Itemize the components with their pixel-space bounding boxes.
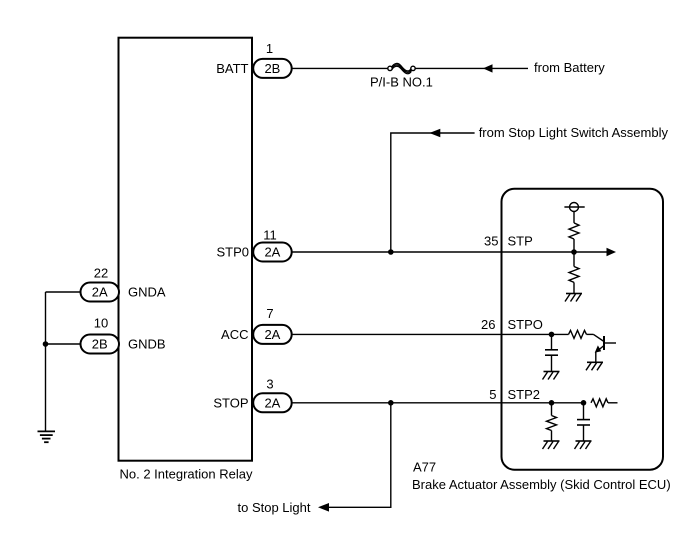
svg-text:STPO: STPO bbox=[508, 317, 543, 332]
junction dot STP2 first bbox=[549, 400, 555, 406]
wire GNDB bbox=[46, 343, 81, 345]
pin 11 STP0 connector 2A bbox=[216, 228, 291, 262]
svg-text:Brake Actuator Assembly (Skid: Brake Actuator Assembly (Skid Control EC… bbox=[412, 477, 671, 492]
svg-text:P/I-B NO.1: P/I-B NO.1 bbox=[370, 75, 433, 90]
junction dot STP divider bbox=[571, 249, 577, 255]
svg-text:STOP: STOP bbox=[213, 395, 248, 410]
ground STPO capacitor bbox=[543, 372, 560, 380]
svg-text:22: 22 bbox=[94, 266, 108, 281]
resistor base STPO bbox=[552, 330, 594, 338]
svg-text:2A: 2A bbox=[92, 285, 108, 300]
pin 1 BATT connector 2B bbox=[216, 41, 291, 78]
capacitor C STPO bbox=[545, 334, 558, 371]
capacitor C STP2 bbox=[577, 403, 590, 441]
wire GNDA bbox=[46, 291, 81, 293]
svg-text:STP: STP bbox=[508, 234, 533, 249]
fusible link P/I-B NO.1 bbox=[370, 63, 433, 89]
ground STP divider bbox=[565, 294, 582, 302]
junction dot STP2 second bbox=[581, 400, 587, 406]
svg-text:A77: A77 bbox=[413, 460, 436, 475]
svg-text:26: 26 bbox=[481, 317, 495, 332]
svg-text:1: 1 bbox=[266, 41, 273, 56]
junction dot STP0/switch bbox=[388, 249, 394, 255]
resistor lower STP bbox=[569, 252, 579, 294]
svg-text:3: 3 bbox=[266, 377, 273, 392]
svg-text:2A: 2A bbox=[264, 245, 280, 260]
wire from Stop Light Switch Assembly bbox=[391, 125, 669, 252]
wire STOP to STP2 bbox=[292, 402, 584, 404]
pin 5 STP2 label bbox=[489, 387, 540, 402]
ground earth symbol bbox=[38, 431, 56, 442]
ECU box A77 Brake Actuator Assembly bbox=[412, 189, 671, 492]
pin 35 STP label bbox=[484, 234, 533, 249]
junction dot STPO bbox=[549, 332, 555, 338]
ground transistor emitter bbox=[586, 362, 603, 370]
svg-text:2B: 2B bbox=[92, 337, 108, 352]
pin 26 STPO label bbox=[481, 317, 543, 332]
relay box No.2 Integration Relay bbox=[119, 38, 253, 482]
junction dot GND bbox=[43, 341, 49, 347]
svg-text:STP0: STP0 bbox=[216, 245, 249, 260]
wire ground drop bbox=[45, 292, 47, 431]
pin 10 GNDB connector 2B bbox=[81, 316, 166, 354]
wire ACC to STPO bbox=[292, 333, 552, 335]
svg-text:GNDA: GNDA bbox=[128, 285, 166, 300]
transistor Q STPO bbox=[594, 334, 617, 362]
svg-text:BATT: BATT bbox=[216, 61, 248, 76]
resistor STP2 series bbox=[591, 399, 618, 407]
svg-text:10: 10 bbox=[94, 316, 108, 331]
resistor upper STP bbox=[569, 223, 579, 252]
pin 7 ACC connector 2A bbox=[221, 306, 292, 344]
wire STP0 to STP bbox=[292, 248, 616, 256]
pin 22 GNDA connector 2A bbox=[81, 266, 166, 302]
svg-text:5: 5 bbox=[489, 387, 496, 402]
pin 3 STOP connector 2A bbox=[213, 377, 291, 413]
svg-text:ACC: ACC bbox=[221, 327, 248, 342]
svg-text:STP2: STP2 bbox=[508, 387, 541, 402]
svg-text:to Stop Light: to Stop Light bbox=[238, 500, 311, 515]
ground STP2 resistor bbox=[543, 441, 560, 449]
svg-text:No. 2 Integration Relay: No. 2 Integration Relay bbox=[120, 467, 253, 482]
svg-text:7: 7 bbox=[266, 306, 273, 321]
svg-text:from Stop Light Switch Assembl: from Stop Light Switch Assembly bbox=[479, 125, 669, 140]
resistor R STP2 left bbox=[547, 403, 557, 441]
svg-text:2B: 2B bbox=[264, 61, 280, 76]
svg-text:from Battery: from Battery bbox=[534, 60, 605, 75]
svg-text:35: 35 bbox=[484, 234, 498, 249]
svg-text:GNDB: GNDB bbox=[128, 337, 166, 352]
wire to Stop Light bbox=[238, 403, 391, 515]
wire BATT to battery bbox=[292, 60, 606, 75]
svg-text:2A: 2A bbox=[264, 395, 280, 410]
junction dot stop light drop bbox=[388, 400, 394, 406]
power source symbol bbox=[564, 203, 584, 223]
svg-text:2A: 2A bbox=[264, 327, 280, 342]
ground STP2 capacitor bbox=[575, 441, 592, 449]
svg-text:11: 11 bbox=[263, 228, 277, 243]
